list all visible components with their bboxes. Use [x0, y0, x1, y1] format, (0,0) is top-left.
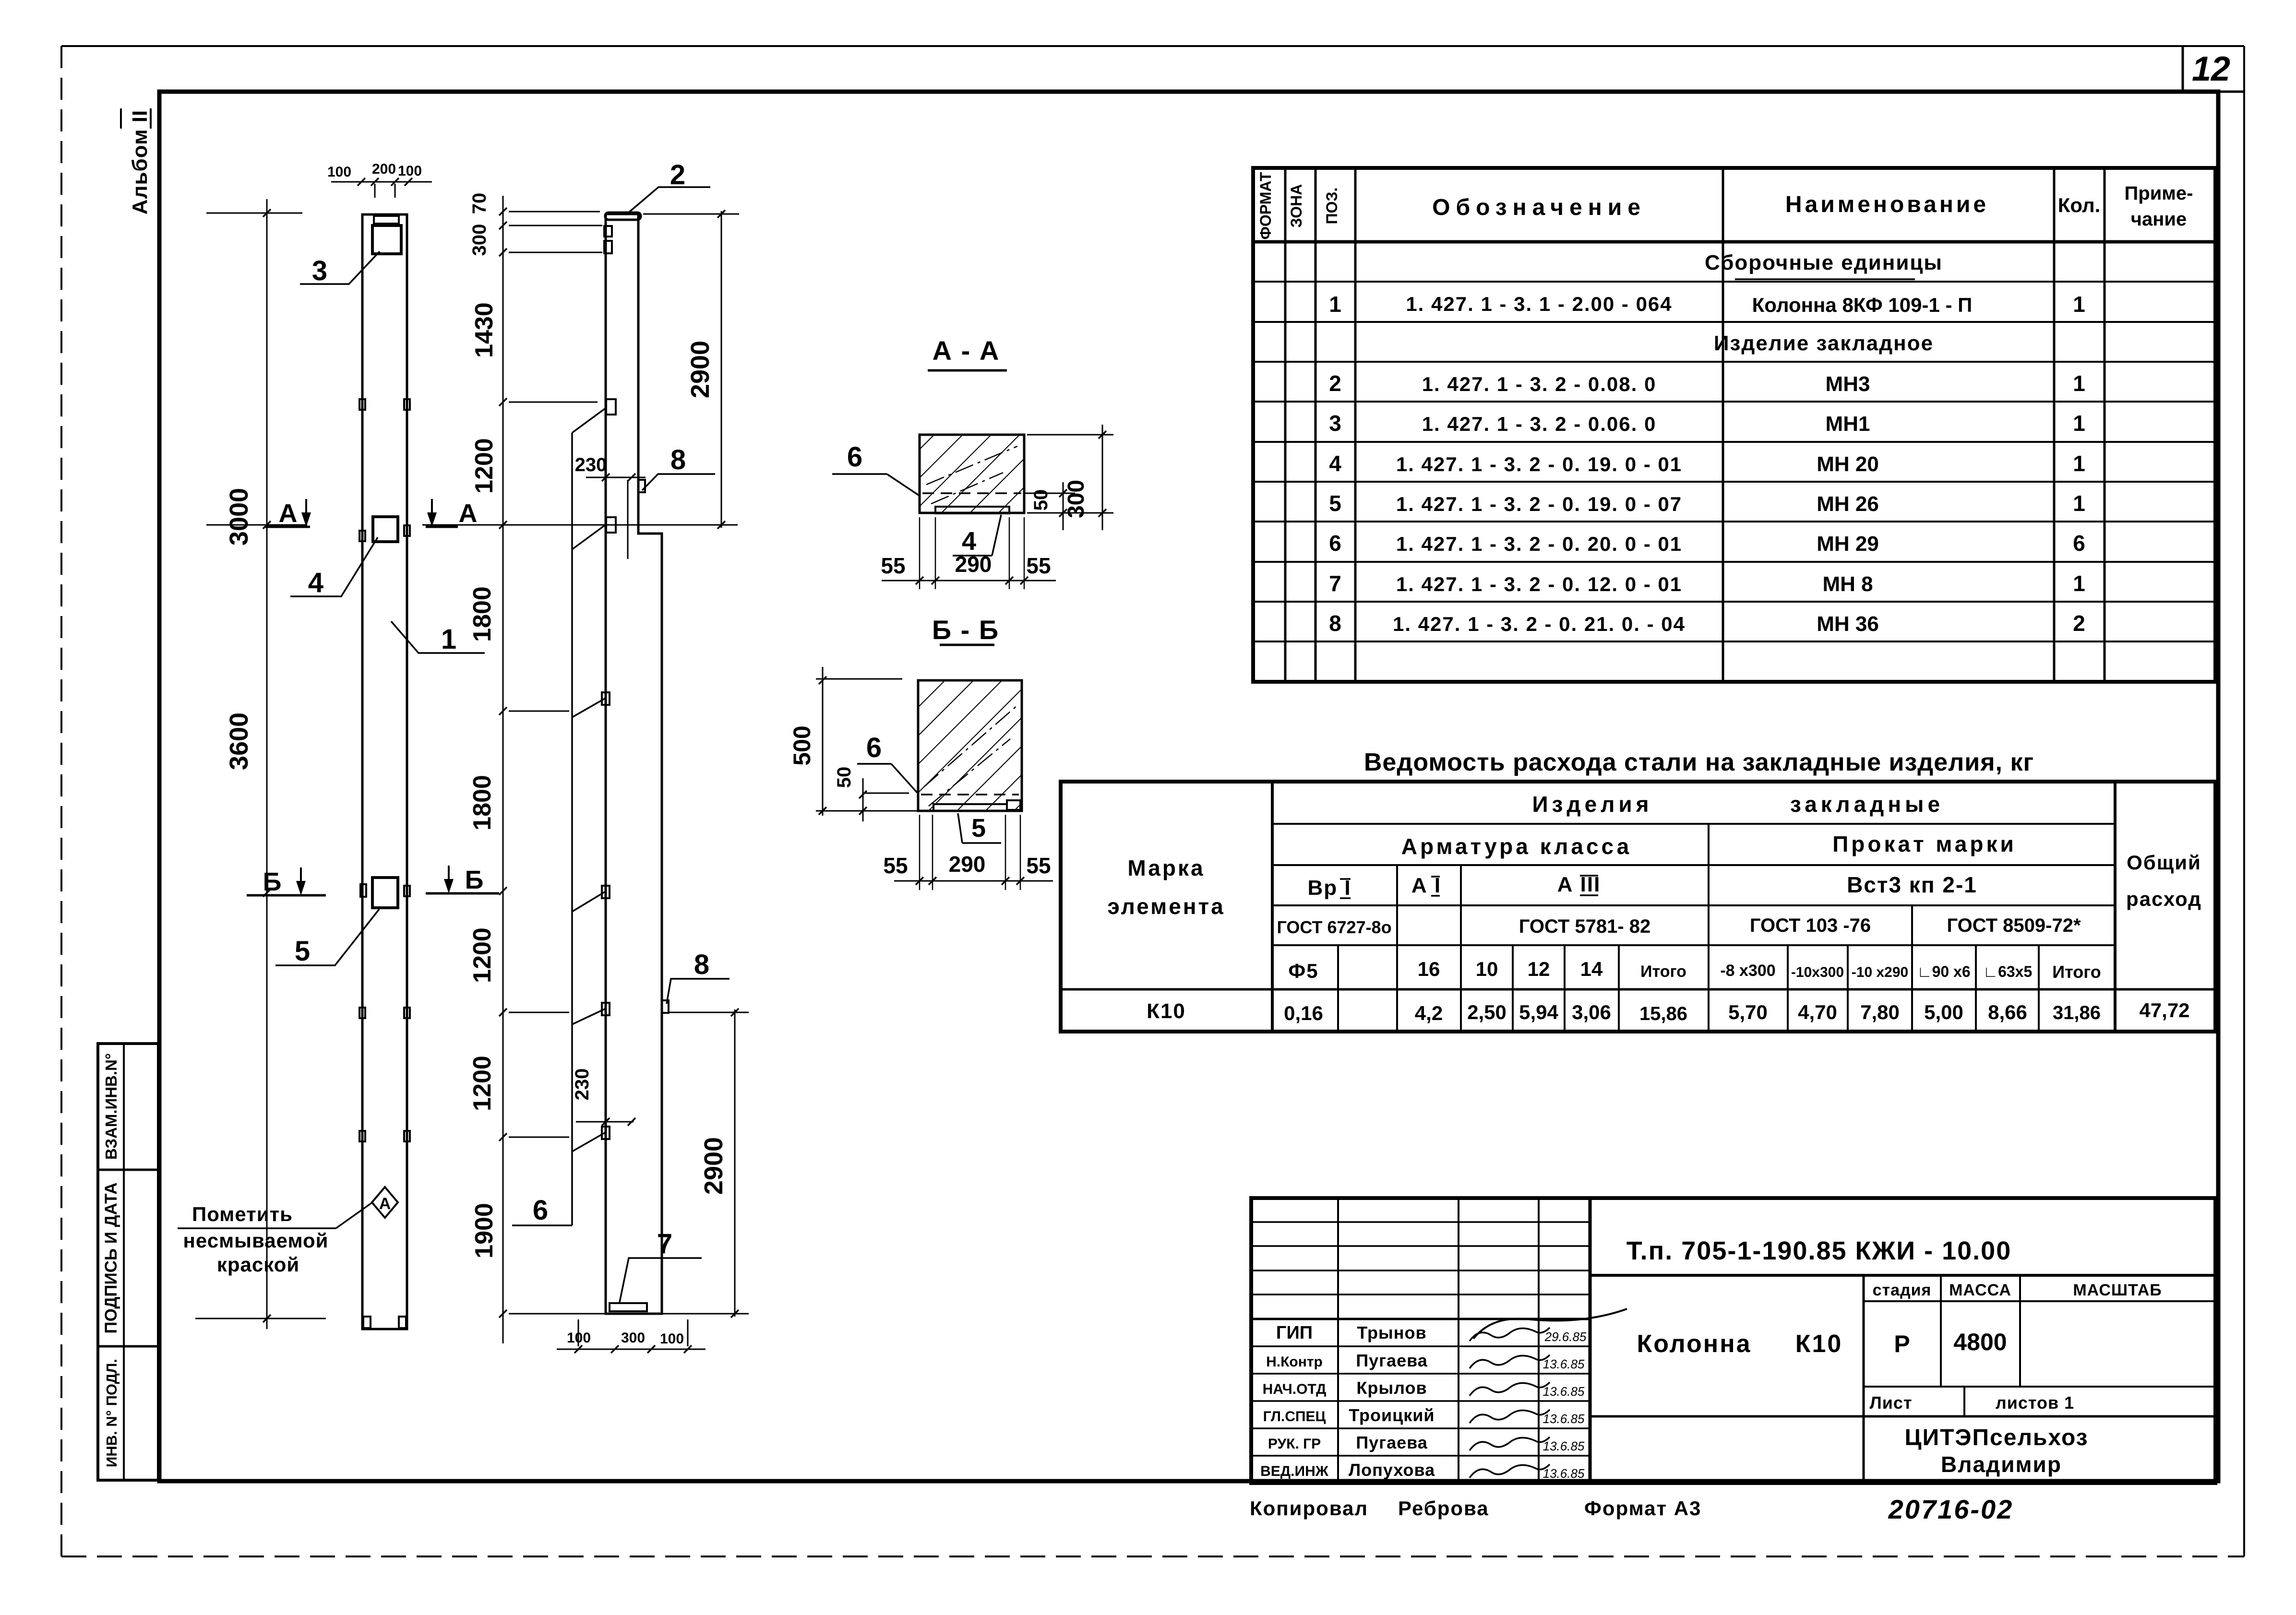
dimension 2900 lower — [670, 1012, 749, 1013]
svg-text:краской: краской — [217, 1253, 299, 1276]
svg-text:31,86: 31,86 — [2053, 1002, 2101, 1023]
svg-text:1800: 1800 — [468, 775, 496, 831]
svg-text:Приме-: Приме- — [2125, 183, 2193, 204]
svg-text:3000: 3000 — [225, 488, 253, 546]
section mark Б (right) — [426, 892, 499, 895]
svg-text:1: 1 — [2073, 491, 2085, 516]
svg-text:8: 8 — [1329, 611, 1341, 636]
svg-text:ВЗАМ.ИНВ.N°: ВЗАМ.ИНВ.N° — [102, 1053, 120, 1160]
bottom dimension 55 290 55 — [816, 810, 918, 812]
svg-text:7,80: 7,80 — [1860, 1001, 1900, 1023]
svg-text:МН1: МН1 — [1826, 412, 1870, 436]
svg-text:13.6.85: 13.6.85 — [1543, 1357, 1585, 1371]
svg-text:5,70: 5,70 — [1728, 1001, 1768, 1023]
svg-text:1900: 1900 — [470, 1203, 498, 1259]
svg-text:4: 4 — [308, 567, 323, 598]
svg-text:элемента: элемента — [1107, 894, 1225, 919]
svg-text:1: 1 — [441, 624, 456, 655]
svg-text:А: А — [459, 499, 478, 528]
svg-text:ЗОНА: ЗОНА — [1288, 184, 1305, 228]
svg-text:К10: К10 — [1147, 999, 1186, 1023]
svg-text:7: 7 — [657, 1228, 672, 1259]
svg-text:МН 29: МН 29 — [1817, 532, 1879, 556]
svg-text:Пугаева: Пугаева — [1356, 1433, 1428, 1452]
svg-text:1. 427. 1 - 3. 2 - 0. 12. 0: 1. 427. 1 - 3. 2 - 0. 12. 0 - 01 — [1396, 573, 1682, 595]
svg-text:55: 55 — [883, 853, 908, 878]
leader and label 8 (upper) — [642, 474, 715, 490]
svg-text:100: 100 — [567, 1330, 591, 1346]
svg-text:ВЕД.ИНЖ: ВЕД.ИНЖ — [1260, 1463, 1329, 1479]
leader and label 1 (column body) — [391, 621, 485, 653]
svg-text:55: 55 — [1026, 853, 1051, 878]
svg-text:3: 3 — [312, 255, 327, 286]
handwritten signatures — [1470, 1328, 1550, 1341]
svg-text:1. 427. 1 - 3. 2 - 0. 21. 0: 1. 427. 1 - 3. 2 - 0. 21. 0. - 04 — [1393, 613, 1686, 635]
section A-A concrete (hatched) — [920, 435, 1024, 513]
dimension 300 (right) — [1102, 425, 1103, 530]
small side plates on column 1 edges — [359, 399, 365, 410]
dimension 50 (left) — [862, 778, 864, 821]
svg-text:Ф5: Ф5 — [1288, 960, 1318, 982]
svg-text:Пометить: Пометить — [192, 1203, 293, 1225]
svg-text:Обозначение: Обозначение — [1432, 195, 1646, 220]
svg-text:55: 55 — [1026, 553, 1051, 578]
svg-text:расход: расход — [2126, 888, 2202, 910]
svg-text:6: 6 — [866, 732, 882, 763]
svg-text:Владимир: Владимир — [1941, 1452, 2062, 1477]
dimension 500 (left) — [822, 667, 824, 816]
svg-text:13.6.85: 13.6.85 — [1543, 1384, 1585, 1399]
axis dash-dot lines — [926, 446, 1017, 485]
svg-text:4,70: 4,70 — [1798, 1001, 1837, 1023]
top embed plate MN3 (end view) — [374, 216, 399, 224]
svg-text:1200: 1200 — [468, 1056, 496, 1111]
svg-text:6: 6 — [2073, 531, 2085, 556]
svg-text:16: 16 — [1418, 958, 1440, 980]
svg-text:Н.Контр: Н.Контр — [1266, 1354, 1323, 1370]
svg-text:50: 50 — [1030, 489, 1052, 511]
svg-text:55: 55 — [881, 553, 905, 578]
svg-text:20716-02: 20716-02 — [1888, 1494, 2014, 1524]
svg-text:К10: К10 — [1795, 1330, 1843, 1358]
leader and label 2 (top plate) — [626, 187, 710, 214]
svg-text:ФОРМАТ: ФОРМАТ — [1257, 172, 1274, 239]
svg-text:5,00: 5,00 — [1924, 1001, 1963, 1023]
svg-text:5: 5 — [971, 814, 986, 843]
svg-text:Формат А3: Формат А3 — [1584, 1497, 1701, 1520]
svg-text:Кол.: Кол. — [2058, 194, 2101, 216]
svg-text:4,2: 4,2 — [1415, 1002, 1443, 1024]
svg-text:6: 6 — [533, 1195, 548, 1226]
svg-text:НАЧ.ОТД: НАЧ.ОТД — [1263, 1381, 1327, 1397]
svg-text:Колонна 8КФ 109-1 - П: Колонна 8КФ 109-1 - П — [1752, 294, 1973, 316]
left dimension chain (3000 / 3600) — [266, 199, 268, 1329]
svg-text:МАССА: МАССА — [1949, 1281, 2011, 1299]
svg-text:1. 427. 1 - 3. 1 - 2.00 - 064: 1. 427. 1 - 3. 1 - 2.00 - 064 — [1406, 293, 1672, 315]
svg-text:13.6.85: 13.6.85 — [1543, 1466, 1585, 1481]
svg-text:Колонна: Колонна — [1637, 1330, 1751, 1358]
svg-text:5,94: 5,94 — [1519, 1001, 1558, 1023]
small anchor block right — [1007, 800, 1020, 810]
svg-text:А: А — [279, 499, 298, 528]
svg-text:-10 х290: -10 х290 — [1852, 964, 1908, 980]
hidden plate edge (dashed) — [921, 794, 1019, 796]
svg-text:47,72: 47,72 — [2139, 999, 2189, 1021]
svg-text:290: 290 — [955, 552, 992, 577]
svg-text:6: 6 — [847, 441, 862, 473]
svg-text:2900: 2900 — [699, 1137, 728, 1195]
svg-text:1: 1 — [2073, 371, 2085, 396]
svg-text:Пугаева: Пугаева — [1356, 1351, 1428, 1370]
svg-text:ГОСТ 6727-8о: ГОСТ 6727-8о — [1277, 917, 1391, 937]
svg-text:∟90 х6: ∟90 х6 — [1917, 963, 1970, 980]
svg-text:4: 4 — [1329, 451, 1341, 476]
svg-text:-8 х300: -8 х300 — [1720, 962, 1775, 980]
svg-text:4: 4 — [962, 527, 976, 556]
svg-text:ГОСТ 5781- 82: ГОСТ 5781- 82 — [1519, 916, 1651, 937]
svg-text:1: 1 — [1329, 292, 1341, 317]
svg-text:МН3: МН3 — [1826, 372, 1870, 396]
svg-text:1: 1 — [2073, 411, 2085, 436]
dimension 2900 upper — [643, 214, 739, 215]
title block outer border — [1251, 1198, 2215, 1483]
bottom plate MN8 (item 7) — [610, 1303, 647, 1311]
svg-text:закладные: закладные — [1790, 792, 1944, 817]
hidden plate edge (dashed) — [922, 492, 1021, 494]
svg-text:1. 427. 1 - 3. 2 - 0.06. 0: 1. 427. 1 - 3. 2 - 0.06. 0 — [1422, 413, 1657, 435]
svg-text:Т.п. 705-1-190.85 КЖИ - 10.00: Т.п. 705-1-190.85 КЖИ - 10.00 — [1626, 1236, 2011, 1265]
svg-text:1430: 1430 — [470, 302, 498, 358]
svg-text:листов 1: листов 1 — [1996, 1393, 2074, 1413]
svg-text:290: 290 — [949, 852, 986, 877]
column K10 side view outline with step — [606, 214, 662, 1314]
leader and label 8 (lower) — [667, 979, 729, 1004]
embed plate MN1 (item 3) — [372, 226, 401, 254]
svg-text:Копировал: Копировал — [1250, 1497, 1368, 1520]
svg-text:Изделия: Изделия — [1532, 792, 1652, 817]
svg-text:500: 500 — [789, 725, 815, 765]
svg-text:ЦИТЭПсельхоз: ЦИТЭПсельхоз — [1905, 1425, 2089, 1450]
svg-text:70: 70 — [469, 193, 490, 214]
svg-text:∟63х5: ∟63х5 — [1983, 963, 2033, 980]
svg-text:ГОСТ 8509-72*: ГОСТ 8509-72* — [1947, 915, 2081, 936]
svg-text:Итого: Итого — [2052, 962, 2101, 982]
svg-text:13.6.85: 13.6.85 — [1543, 1412, 1585, 1426]
embed plate strip of MN26 — [933, 804, 1007, 811]
svg-text:МН 36: МН 36 — [1817, 612, 1879, 636]
svg-text:8,66: 8,66 — [1988, 1001, 2027, 1023]
bottom dimension 55 290 55 — [882, 580, 1056, 582]
svg-text:5: 5 — [295, 936, 310, 967]
svg-text:-10х300: -10х300 — [1791, 964, 1844, 980]
svg-text:1: 1 — [2073, 451, 2085, 476]
svg-text:1200: 1200 — [468, 927, 496, 983]
leader from note to diamond A — [336, 1202, 372, 1228]
inner drawing frame (thick) — [159, 92, 2218, 1481]
svg-text:Общий: Общий — [2127, 851, 2201, 874]
svg-text:ГЛ.СПЕЦ: ГЛ.СПЕЦ — [1263, 1409, 1326, 1425]
outer sheet frame — [61, 45, 2244, 47]
leader and label 3 — [300, 251, 380, 284]
embed plate MN36 lower (item 8) on right edge — [662, 1000, 669, 1013]
svg-text:12: 12 — [1528, 958, 1550, 980]
svg-text:несмываемой: несмываемой — [183, 1229, 329, 1252]
svg-text:1800: 1800 — [468, 586, 496, 642]
svg-text:МН 20: МН 20 — [1817, 452, 1879, 476]
svg-text:Б: Б — [465, 866, 484, 894]
svg-text:Б: Б — [263, 867, 282, 896]
svg-text:ГИП: ГИП — [1276, 1323, 1313, 1343]
paint marker diamond A on column — [372, 1187, 398, 1218]
sheet number box top-right — [2182, 46, 2184, 92]
svg-text:10: 10 — [1476, 958, 1498, 980]
svg-text:Реброва: Реброва — [1398, 1497, 1489, 1520]
section mark A (left) — [265, 526, 310, 528]
svg-text:стадия: стадия — [1873, 1281, 1932, 1299]
svg-text:100: 100 — [660, 1331, 684, 1347]
svg-text:200: 200 — [372, 161, 396, 177]
svg-text:МН 8: МН 8 — [1822, 572, 1873, 596]
svg-text:Лопухова: Лопухова — [1349, 1460, 1435, 1480]
embed plate MN36 upper (item 8) on right edge — [638, 480, 645, 492]
svg-text:РУК. ГР: РУК. ГР — [1268, 1436, 1321, 1452]
svg-text:Арматура класса: Арматура класса — [1401, 834, 1632, 859]
title block left horizontals — [1251, 1221, 1590, 1223]
svg-text:230: 230 — [575, 454, 607, 475]
svg-text:А: А — [379, 1195, 391, 1213]
svg-text:100: 100 — [398, 163, 422, 179]
svg-text:А - А: А - А — [933, 335, 1000, 366]
column K10 front view outline — [362, 214, 407, 1329]
column 1 bottom socket notches — [363, 1317, 371, 1328]
svg-text:1: 1 — [2073, 292, 2085, 317]
section mark A (right) — [426, 526, 458, 528]
svg-text:3,06: 3,06 — [1572, 1001, 1611, 1023]
svg-text:ПОДПИСЬ И ДАТА: ПОДПИСЬ И ДАТА — [102, 1182, 120, 1333]
svg-text:29.6.85: 29.6.85 — [1544, 1330, 1587, 1344]
bottom dimension 100 300 100 — [557, 1349, 706, 1350]
svg-text:8: 8 — [694, 949, 709, 980]
svg-text:2: 2 — [1329, 371, 1341, 396]
svg-text:Сборочные единицы: Сборочные единицы — [1705, 251, 1943, 274]
svg-text:1: 1 — [2073, 571, 2085, 596]
svg-text:Прокат марки: Прокат марки — [1832, 831, 2017, 856]
side stamp table (rotated labels) — [98, 1044, 158, 1480]
svg-text:ИНВ. N° ПОДЛ.: ИНВ. N° ПОДЛ. — [103, 1359, 120, 1467]
svg-text:6: 6 — [1329, 531, 1341, 556]
svg-text:0,16: 0,16 — [1284, 1002, 1323, 1024]
axis dash-dot line — [924, 705, 1017, 787]
svg-text:Итого: Итого — [1640, 962, 1686, 981]
steel table grid — [1061, 782, 2215, 1032]
svg-text:14: 14 — [1580, 958, 1603, 980]
svg-text:Р: Р — [1894, 1330, 1910, 1357]
bracket leader and label 6 — [571, 433, 573, 1225]
svg-text:5: 5 — [1329, 491, 1341, 516]
svg-text:Вст3 кп 2-1: Вст3 кп 2-1 — [1847, 872, 1977, 897]
svg-text:МАСШТАБ: МАСШТАБ — [2073, 1281, 2162, 1299]
svg-text:300: 300 — [621, 1330, 645, 1346]
specification table grid — [1253, 168, 2215, 682]
section mark Б (left) — [247, 894, 326, 897]
top plate cap MN3 side — [605, 213, 641, 220]
dimension 50 (right) — [1063, 482, 1064, 530]
svg-text:8: 8 — [670, 444, 686, 475]
svg-text:1. 427. 1 - 3. 2 - 0. 20. 0: 1. 427. 1 - 3. 2 - 0. 20. 0 - 01 — [1396, 533, 1682, 555]
leader and label 7 — [620, 1258, 702, 1302]
svg-text:12: 12 — [2192, 50, 2230, 88]
svg-text:Трынов: Трынов — [1357, 1323, 1426, 1342]
leader and label 4 — [290, 537, 378, 596]
svg-text:Наименование: Наименование — [1785, 192, 1989, 217]
svg-text:4800: 4800 — [1953, 1329, 2007, 1355]
svg-text:2: 2 — [2073, 611, 2085, 636]
svg-text:1. 427. 1 - 3. 2 - 0.08. 0: 1. 427. 1 - 3. 2 - 0.08. 0 — [1422, 373, 1657, 395]
svg-text:Троицкий: Троицкий — [1349, 1405, 1435, 1425]
svg-text:1200: 1200 — [470, 438, 498, 494]
svg-text:чание: чание — [2131, 209, 2187, 230]
section Б-Б concrete (hatched) — [918, 680, 1022, 811]
svg-text:МН 26: МН 26 — [1817, 492, 1879, 516]
svg-text:3: 3 — [1329, 411, 1341, 436]
svg-text:Изделие закладное: Изделие закладное — [1714, 332, 1934, 355]
svg-text:Б - Б: Б - Б — [932, 615, 999, 645]
leader and label 5 — [275, 909, 379, 965]
svg-text:230: 230 — [572, 1069, 593, 1101]
svg-text:3600: 3600 — [225, 712, 253, 770]
top dimension 100 200 100 — [331, 181, 432, 183]
right dimension chain 70/300/1430/1200/1800/1800/1200/1200/1900 — [502, 196, 504, 1343]
svg-text:Лист: Лист — [1869, 1393, 1912, 1413]
svg-text:1. 427. 1 - 3. 2 - 0. 19. 0 -: 1. 427. 1 - 3. 2 - 0. 19. 0 - 01 — [1396, 453, 1682, 475]
embed plate strip of MN20 — [935, 507, 1009, 513]
svg-text:2900: 2900 — [686, 341, 715, 398]
embed plate MN26 (item 5) — [372, 878, 398, 908]
svg-text:13.6.85: 13.6.85 — [1543, 1439, 1585, 1453]
svg-text:2: 2 — [670, 159, 685, 190]
svg-text:100: 100 — [327, 164, 351, 180]
svg-text:Крылов: Крылов — [1356, 1378, 1427, 1398]
title block right structure — [1590, 1274, 2215, 1277]
svg-text:50: 50 — [834, 767, 855, 788]
svg-text:7: 7 — [1329, 571, 1341, 596]
svg-text:2,50: 2,50 — [1467, 1001, 1507, 1023]
svg-text:ПОЗ.: ПОЗ. — [1323, 188, 1340, 225]
svg-text:15,86: 15,86 — [1639, 1003, 1687, 1024]
svg-text:300: 300 — [469, 224, 490, 256]
svg-text:Альбом II: Альбом II — [128, 110, 152, 214]
svg-text:1. 427. 1 - 3. 2 - 0. 19. 0: 1. 427. 1 - 3. 2 - 0. 19. 0 - 07 — [1396, 493, 1682, 515]
embed plates MN29 on left edge (item 6) — [606, 399, 616, 415]
svg-text:Марка: Марка — [1127, 855, 1205, 880]
embed plate MN20 (item 4) — [373, 517, 398, 542]
svg-text:Ведомость расхода стали на: Ведомость расхода стали на закладные изд… — [1364, 748, 2034, 776]
svg-text:ГОСТ 103 -76: ГОСТ 103 -76 — [1750, 915, 1871, 936]
title block left verticals — [1337, 1198, 1339, 1483]
